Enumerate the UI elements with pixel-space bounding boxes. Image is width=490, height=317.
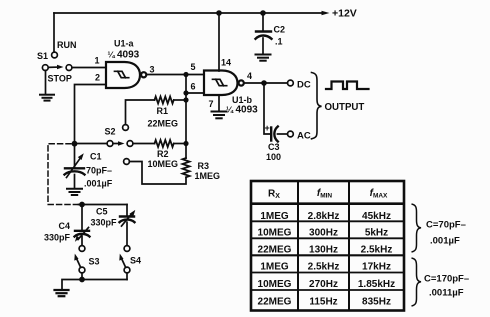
- svg-text:U1-b: U1-b: [232, 95, 253, 105]
- svg-text:C4: C4: [59, 221, 71, 231]
- ground S1: [40, 95, 54, 101]
- svg-text:.001µF: .001µF: [430, 236, 460, 247]
- svg-text:RUN: RUN: [57, 40, 77, 50]
- svg-text:1: 1: [95, 56, 100, 66]
- switch S4: [119, 246, 130, 273]
- svg-text:+12V: +12V: [332, 8, 357, 20]
- svg-text:3: 3: [150, 65, 155, 75]
- svg-text:270Hz: 270Hz: [309, 279, 338, 290]
- wire bus pin5 to R2 row: [185, 75, 187, 144]
- resistor R1: [123, 97, 186, 131]
- svg-text:C=70pF–: C=70pF–: [426, 220, 466, 231]
- ground C1: [67, 189, 82, 195]
- junction node R2/bus: [183, 141, 188, 146]
- hysteresis symbol U1-a: [115, 71, 129, 77]
- svg-text:fMAX: fMAX: [370, 188, 388, 200]
- svg-text:DC: DC: [297, 80, 311, 91]
- svg-text:300Hz: 300Hz: [309, 228, 338, 239]
- op-amp U1-a (NAND gate 4093): [106, 62, 146, 88]
- wire node down to C3: [264, 83, 270, 134]
- svg-text:10MEG: 10MEG: [258, 279, 292, 290]
- svg-text:STOP: STOP: [48, 74, 72, 84]
- capacitor C1 (variable): [65, 144, 85, 188]
- svg-text:1.85kHz: 1.85kHz: [358, 279, 395, 290]
- svg-text:¼ 4093: ¼ 4093: [108, 50, 140, 61]
- wire node to S2: [75, 143, 108, 145]
- svg-text:10MEG: 10MEG: [148, 159, 179, 169]
- ground C2: [256, 55, 271, 61]
- wire bottom node row: [79, 204, 128, 206]
- svg-text:14: 14: [221, 58, 231, 68]
- brace C=170pF group: [412, 258, 422, 306]
- wire U1-b pin 7: [218, 95, 220, 111]
- svg-text:45kHz: 45kHz: [362, 211, 391, 222]
- svg-text:22MEG: 22MEG: [258, 244, 292, 255]
- svg-text:5: 5: [191, 62, 196, 72]
- svg-text:115Hz: 115Hz: [309, 297, 337, 308]
- svg-text:S1: S1: [37, 51, 48, 61]
- svg-text:100: 100: [266, 152, 281, 162]
- svg-text:22MEG: 22MEG: [148, 119, 179, 129]
- table frequency chart: [251, 181, 404, 311]
- svg-text:2: 2: [95, 73, 100, 83]
- switch S1: [42, 52, 72, 70]
- svg-text:+: +: [265, 123, 270, 133]
- svg-text:RX: RX: [268, 189, 280, 201]
- svg-text:1MEG: 1MEG: [260, 262, 289, 273]
- svg-text:330pF: 330pF: [44, 233, 71, 243]
- ground U1-b pin7: [212, 112, 227, 119]
- svg-text:4: 4: [247, 71, 252, 81]
- svg-text:7: 7: [209, 99, 214, 109]
- junction node rail/pin14: [216, 10, 222, 16]
- svg-text:¼ 4093: ¼ 4093: [226, 105, 258, 116]
- ground bottom rail: [55, 290, 69, 296]
- svg-text:130Hz: 130Hz: [309, 244, 338, 255]
- svg-text:U1-a: U1-a: [114, 39, 135, 49]
- svg-text:R1: R1: [157, 106, 169, 116]
- junction node R1/bus: [183, 97, 188, 102]
- junction node output: [261, 80, 267, 86]
- svg-text:AC: AC: [297, 131, 311, 142]
- resistor R3: [124, 144, 190, 185]
- junction node pin5: [183, 72, 188, 77]
- svg-text:S3: S3: [89, 257, 100, 267]
- svg-text:22MEG: 22MEG: [258, 297, 292, 308]
- svg-text:2.8kHz: 2.8kHz: [308, 211, 340, 222]
- op-amp U1-b (NAND gate 4093): [204, 71, 244, 96]
- output brace: [312, 73, 322, 139]
- square wave symbol: [326, 82, 369, 90]
- svg-text:835Hz: 835Hz: [362, 297, 391, 308]
- wire U1-b output to node: [244, 82, 264, 84]
- node DC terminal: [288, 80, 294, 86]
- svg-text:5kHz: 5kHz: [365, 228, 388, 239]
- wire S1 riser from rail: [53, 13, 55, 52]
- wire bottom ground rail: [62, 280, 127, 290]
- junction node feedback/C1: [72, 141, 78, 147]
- switch S3: [74, 246, 85, 273]
- svg-text:C3: C3: [268, 142, 280, 152]
- wire node to DC terminal: [264, 82, 288, 84]
- svg-text:.0011µF: .0011µF: [429, 288, 464, 299]
- wire S1 to U1-a pin 1: [72, 67, 106, 69]
- svg-text:1MEG: 1MEG: [260, 211, 289, 222]
- capacitor C2: [256, 32, 272, 39]
- wire S1 common to ground: [45, 71, 47, 94]
- node AC terminal: [288, 131, 294, 137]
- capacitor C3: [271, 127, 278, 142]
- junction node S3/rail: [79, 277, 85, 283]
- wire C4 drop: [81, 205, 83, 230]
- svg-text:OUTPUT: OUTPUT: [325, 102, 365, 113]
- svg-text:S4: S4: [130, 256, 141, 266]
- svg-text:C=170pF–: C=170pF–: [424, 274, 469, 285]
- wire U1-b pin 14 riser: [218, 13, 220, 71]
- wire U1-b pin 6: [186, 92, 204, 94]
- svg-text:C2: C2: [274, 25, 286, 35]
- wire C2 riser: [262, 13, 264, 31]
- junction node rail/C2: [260, 10, 266, 16]
- resistor R2: [133, 140, 186, 147]
- svg-text:1MEG: 1MEG: [195, 171, 221, 181]
- svg-text:R2: R2: [157, 149, 169, 159]
- hysteresis symbol U1-b: [213, 79, 227, 85]
- wire S4 to rail: [126, 273, 128, 280]
- wire S3 to rail: [81, 273, 83, 280]
- wire C5 drop: [126, 205, 128, 216]
- wire dashed gang link: [48, 144, 78, 205]
- switch S2: [107, 141, 133, 147]
- junction node pin6: [183, 90, 188, 95]
- svg-text:2.5kHz: 2.5kHz: [361, 244, 393, 255]
- svg-text:.001µF: .001µF: [84, 179, 113, 189]
- capacitor C4 (variable): [75, 228, 90, 246]
- capacitor C5 (variable): [120, 210, 136, 246]
- svg-text:330pF: 330pF: [91, 218, 118, 228]
- wire C3 to AC terminal: [278, 133, 288, 135]
- svg-text:2.5kHz: 2.5kHz: [308, 262, 340, 273]
- svg-text:6: 6: [191, 82, 196, 92]
- svg-text:70pF–: 70pF–: [86, 166, 112, 176]
- brace C=70pF group: [412, 204, 422, 252]
- svg-text:R3: R3: [198, 161, 210, 171]
- svg-text:C5: C5: [96, 207, 108, 217]
- svg-text:10MEG: 10MEG: [258, 228, 292, 239]
- svg-text:.1: .1: [275, 37, 283, 47]
- wire U1-a pin 2 feedback: [75, 85, 107, 145]
- wire +12V top rail: [54, 12, 322, 14]
- svg-text:fMIN: fMIN: [317, 188, 333, 200]
- svg-text:S2: S2: [105, 127, 116, 137]
- junction node gang/bottom: [79, 202, 85, 208]
- wire C2 to ground: [262, 38, 264, 54]
- wire U1-a output to U1-b pin 5: [146, 74, 204, 76]
- +12V supply arrow: [322, 11, 330, 15]
- svg-text:17kHz: 17kHz: [362, 262, 391, 273]
- svg-text:C1: C1: [90, 152, 102, 162]
